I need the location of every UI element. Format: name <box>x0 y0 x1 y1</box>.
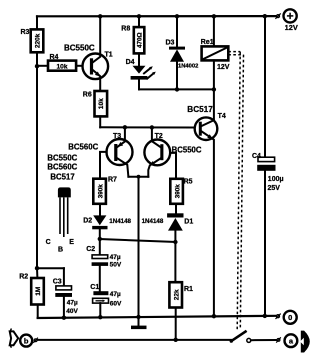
svg-text:D2: D2 <box>83 218 92 225</box>
svg-text:BC550C: BC550C <box>64 44 95 53</box>
terminal +12V top right <box>275 9 297 32</box>
svg-text:390k: 390k <box>97 184 104 199</box>
resistor R2 <box>19 268 44 318</box>
svg-text:390k: 390k <box>174 184 181 199</box>
svg-text:T4: T4 <box>218 113 226 120</box>
svg-text:D1: D1 <box>184 219 193 226</box>
svg-text:12V: 12V <box>285 23 298 32</box>
svg-text:1M: 1M <box>35 286 42 296</box>
svg-text:10k: 10k <box>56 63 67 70</box>
svg-text:E: E <box>69 239 74 246</box>
wire D4 to relay column <box>139 88 214 90</box>
svg-text:R4: R4 <box>50 54 59 61</box>
svg-text:T3: T3 <box>113 133 121 140</box>
resistor R5 <box>170 178 192 213</box>
svg-text:BC517: BC517 <box>50 172 74 181</box>
svg-text:BC550C: BC550C <box>172 145 202 154</box>
terminal 0 bottom right <box>276 311 297 324</box>
wire left rail <box>36 66 38 268</box>
wire top supply rail <box>37 15 277 17</box>
node junction T1 collector on top rail <box>98 14 102 18</box>
svg-text:60V: 60V <box>110 301 122 308</box>
svg-text:47µ: 47µ <box>67 300 78 307</box>
resistor R1 <box>169 282 193 340</box>
svg-text:C3: C3 <box>53 279 62 286</box>
transistor pinout inset TO-92 <box>46 153 78 253</box>
wire D2 to D1 <box>100 239 176 242</box>
svg-text:b: b <box>24 336 29 345</box>
svg-text:25V: 25V <box>268 185 281 192</box>
capacitor C4 <box>252 16 284 316</box>
svg-text:R6: R6 <box>83 91 92 98</box>
node junction relay/T4 collector <box>212 87 216 91</box>
svg-text:47µ: 47µ <box>110 291 121 298</box>
svg-text:1N4148: 1N4148 <box>142 218 164 225</box>
node junction C3 bottom <box>62 316 66 320</box>
svg-text:C1: C1 <box>90 284 99 291</box>
node junction T4 emitter <box>212 314 216 318</box>
svg-text:R8: R8 <box>121 26 130 33</box>
node junction D3 on top rail <box>175 14 179 18</box>
svg-text:22k: 22k <box>173 289 180 300</box>
svg-text:C2: C2 <box>86 246 95 253</box>
node junction D1 to wire <box>173 240 177 244</box>
svg-text:C4: C4 <box>252 153 261 160</box>
wire node to T4 base <box>100 126 195 128</box>
svg-text:0: 0 <box>288 313 292 322</box>
LED D4 <box>126 59 156 90</box>
node junction T3 collector <box>123 125 127 129</box>
node junction R3/R4 <box>35 64 39 68</box>
capacitor C3 <box>37 268 79 318</box>
node junction ground stub <box>136 315 140 319</box>
node junction C4 bottom <box>263 314 267 318</box>
svg-text:BC560C: BC560C <box>68 142 98 151</box>
node junction emitters <box>137 175 141 179</box>
svg-text:470Ω: 470Ω <box>137 32 144 48</box>
diode D2 1N4148 <box>83 215 131 255</box>
svg-text:B: B <box>58 247 63 254</box>
svg-text:T2: T2 <box>155 133 163 140</box>
resistor R6 <box>83 91 107 127</box>
diode D1 1N4148 <box>142 213 194 282</box>
svg-text:T1: T1 <box>105 51 113 58</box>
diode D3 1N4002 <box>166 16 199 89</box>
wire emitter tail down <box>138 177 140 326</box>
wire emitter tail <box>128 176 148 178</box>
mechanical linkage dashed relay to switch <box>228 52 243 330</box>
svg-text:R2: R2 <box>19 274 28 281</box>
relay Re1 <box>201 16 230 89</box>
svg-text:100µ: 100µ <box>268 176 284 183</box>
node junction C1 bottom <box>98 315 102 319</box>
svg-text:BC550C: BC550C <box>47 153 77 162</box>
svg-text:50V: 50V <box>110 262 122 269</box>
switch relay contact <box>230 331 277 343</box>
terminal a bottom right <box>276 331 310 353</box>
svg-text:10k: 10k <box>98 98 105 109</box>
node junction R8 on top rail <box>137 14 141 18</box>
svg-text:BC517: BC517 <box>187 105 213 114</box>
resistor R4 <box>37 54 83 70</box>
transistor T1 BC550C <box>64 16 113 91</box>
svg-text:D4: D4 <box>126 59 135 66</box>
resistor R7 <box>93 176 117 215</box>
node junction R1 bottom <box>174 338 178 342</box>
transistor T3 BC560C <box>68 127 132 178</box>
transistor T4 BC517 <box>187 89 226 316</box>
svg-text:BC560C: BC560C <box>47 163 77 172</box>
node junction R2/C3 <box>35 266 39 270</box>
node junction D3 anode <box>175 87 179 91</box>
svg-text:1N4148: 1N4148 <box>109 218 131 225</box>
capacitor C1 <box>90 284 122 317</box>
node junction D2/C2 <box>98 237 102 241</box>
transistor T2 BC550C <box>144 127 201 178</box>
node junction T2 collector <box>150 125 154 129</box>
node junction 12V column on top rail <box>263 14 267 18</box>
resistor R3 <box>21 16 44 66</box>
ground <box>131 326 147 330</box>
svg-text:40V: 40V <box>66 308 78 315</box>
svg-text:D3: D3 <box>166 40 175 47</box>
svg-text:12V: 12V <box>217 64 230 71</box>
svg-text:47µ: 47µ <box>110 254 121 261</box>
svg-text:R5: R5 <box>184 178 193 185</box>
svg-text:R1: R1 <box>184 286 193 293</box>
wire input line b <box>37 339 231 341</box>
terminal b bottom left <box>10 329 38 348</box>
svg-text:1N4002: 1N4002 <box>178 64 198 70</box>
wire bottom common rail <box>38 316 278 318</box>
svg-text:R7: R7 <box>108 176 117 183</box>
node junction relay on top rail <box>212 14 216 18</box>
svg-text:R3: R3 <box>21 29 30 36</box>
svg-text:C: C <box>46 239 51 246</box>
svg-text:220k: 220k <box>35 33 42 48</box>
resistor R8 <box>121 16 144 66</box>
svg-text:Re1: Re1 <box>201 37 214 46</box>
capacitor C2 <box>86 246 122 291</box>
